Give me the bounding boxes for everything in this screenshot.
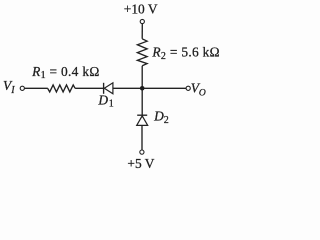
svg-text:D1: D1: [97, 92, 113, 109]
svg-text:VO: VO: [191, 80, 206, 98]
wire Vin to R1: [25, 87, 48, 89]
diode D2 cathode bar: [137, 114, 147, 116]
resistor R1: [48, 85, 76, 92]
node Vout terminal circle: [186, 86, 190, 90]
wire +10V to R2: [141, 24, 143, 39]
wire node to D2: [141, 88, 143, 117]
wire R1 to D1: [75, 87, 104, 89]
node +10V terminal circle: [140, 19, 144, 23]
diode D2 triangle: [137, 116, 148, 126]
svg-text:+5 V: +5 V: [127, 156, 154, 171]
svg-text:D2: D2: [153, 109, 169, 126]
svg-text:R1 = 0.4 kΩ: R1 = 0.4 kΩ: [31, 64, 99, 81]
svg-text:+10 V: +10 V: [124, 2, 158, 17]
svg-text:R2 = 5.6 kΩ: R2 = 5.6 kΩ: [151, 45, 219, 62]
resistor R2: [137, 39, 147, 66]
diode D1 triangle: [104, 83, 113, 94]
wire D2 to +5V: [141, 125, 143, 150]
node Vin terminal circle: [20, 86, 24, 90]
node +5V terminal circle: [140, 150, 144, 154]
wire D1 to node: [113, 87, 142, 89]
svg-text:VI: VI: [3, 78, 15, 96]
wire node to Vout terminal: [142, 87, 186, 89]
diode D1 cathode bar: [103, 83, 105, 94]
junction dot: [140, 86, 145, 91]
wire R2 to node: [141, 66, 143, 89]
